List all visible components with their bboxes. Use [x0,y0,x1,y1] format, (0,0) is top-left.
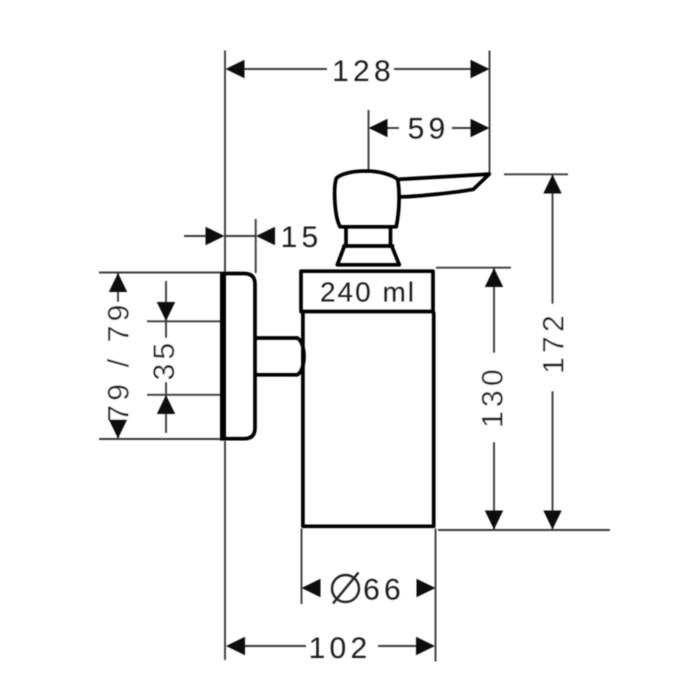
svg-text:102: 102 [309,632,372,665]
extension line: bottle left face lower [301,529,303,605]
dimension 59 line [387,127,399,129]
extension line: 35 bottom [147,394,221,396]
dimension 102 arrows [226,637,245,655]
extension line: 15 right [255,219,257,273]
svg-text:59: 59 [408,113,450,146]
svg-text:130: 130 [477,365,510,428]
extension line: 130 top (bottle shoulder) [436,267,511,269]
extension line: left vertical (wall face) lower [224,441,226,660]
wall plate front face (thick left edge) [220,272,226,441]
dimension d66 arrows [302,579,321,597]
dimension 128 line [243,68,327,70]
extension line: 59 left (pump head top) [368,110,370,171]
holder arm bottom edge [256,373,297,377]
pump head [335,171,399,227]
dimension 172 arrows [543,175,561,194]
svg-text:172: 172 [538,311,571,374]
dimension 79/79 line [117,273,119,439]
bottle body [303,313,434,526]
extension line: plate bottom left [99,438,220,440]
wall plate outline [223,274,255,439]
svg-text:15: 15 [281,221,323,254]
dimension d66 diameter symbol [332,575,359,602]
dimension 35 arrows [157,302,175,321]
dimension 15 arrows [206,227,225,245]
extension line: 172 top [504,173,568,175]
dimension 102 line [245,645,306,647]
extension line: bottle right face lower [435,529,437,662]
extension line: right vertical at spout tip [489,51,491,174]
dimension 172 line [552,175,554,530]
dimension 130 line [493,268,495,530]
svg-text:66: 66 [363,574,405,607]
dimension 35 line [165,281,167,433]
extension line: plate top left [99,272,220,274]
dimension 79/79 arrows [109,273,127,292]
dimension 59 arrows [369,119,388,137]
pump collar [344,229,393,247]
extension line: bottle bottom right [438,529,610,531]
holder arm rounded end [297,338,304,375]
svg-text:79 / 79: 79 / 79 [103,300,136,421]
dimension 15 line [184,235,206,237]
dimension 130 arrows [485,268,503,287]
holder arm top edge [256,336,297,340]
pump lever spout [398,174,490,197]
svg-text:35: 35 [148,339,181,381]
bottle label band [301,271,433,311]
extension line: left vertical (wall face) upper [224,51,226,272]
svg-text:240 ml: 240 ml [320,277,416,308]
extension line: 35 top [147,320,221,322]
pump flare [337,246,399,265]
svg-text:128: 128 [332,55,395,88]
dimension 128 arrows [226,60,245,78]
